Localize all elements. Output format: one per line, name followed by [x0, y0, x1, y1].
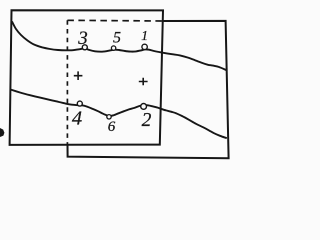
- lower terrain curve: [11, 90, 227, 139]
- control point 2 circle: [141, 104, 147, 110]
- svg-text:1: 1: [141, 28, 148, 43]
- principal point cross right: [139, 78, 148, 86]
- svg-text:2: 2: [142, 110, 152, 131]
- control point 3 circle: [82, 45, 87, 50]
- svg-text:3: 3: [77, 28, 88, 49]
- control point 5 circle: [111, 46, 115, 50]
- control point 1 circle: [142, 44, 147, 49]
- photo sheet B dashed top edge (inside A): [67, 19, 162, 22]
- photo sheet B dashed left edge (inside A): [66, 20, 68, 145]
- control point 6 circle: [107, 115, 111, 119]
- svg-text:5: 5: [113, 30, 121, 47]
- svg-text:4: 4: [72, 108, 82, 130]
- control point 4 circle: [77, 101, 82, 106]
- photo sheet B solid outline (part outside A): [68, 21, 229, 158]
- upper terrain curve: [12, 22, 227, 71]
- principal point cross left: [74, 71, 83, 80]
- edge artifact blob: [0, 128, 4, 137]
- photo sheet A outline: [10, 10, 163, 145]
- svg-text:6: 6: [108, 119, 116, 135]
